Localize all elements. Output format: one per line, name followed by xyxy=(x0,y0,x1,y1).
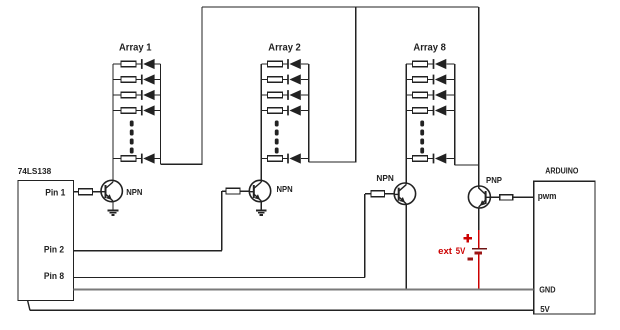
LED diode Array 1 row 4 xyxy=(142,105,155,115)
LED diode Array 1 row 5 xyxy=(142,153,155,163)
LED diode Array 8 row 4 xyxy=(434,105,447,115)
wire Array 1 row 2 segments xyxy=(113,79,121,81)
wire Array 2 row 2 segments xyxy=(261,79,267,81)
resistor Array 1 row 4 xyxy=(121,108,136,114)
ellipsis dots Array 1 (more LEDs implied) xyxy=(130,121,134,154)
svg-text:Array 8: Array 8 xyxy=(413,42,446,53)
wire Q4 base to pwm resistor xyxy=(490,196,499,198)
resistor Array 8 row 1 xyxy=(413,61,428,67)
LED diode Array 2 row 5 xyxy=(288,153,301,163)
svg-text:Pin 8: Pin 8 xyxy=(44,271,64,281)
wire Array 2 right bus to riser xyxy=(309,161,357,163)
resistor Array 1 row 2 xyxy=(121,77,136,83)
LED diode Array 8 row 3 xyxy=(434,90,447,100)
wire Array 2 row 5 segments xyxy=(261,158,267,160)
wire Array 1 row 1 segments xyxy=(113,63,121,65)
battery negative lead to GND rail xyxy=(478,254,480,290)
resistor Array 2 row 5 xyxy=(268,156,283,162)
resistor Array 2 row 4 xyxy=(268,108,283,114)
svg-text:NPN: NPN xyxy=(126,187,142,197)
LED diode Array 2 row 2 xyxy=(288,74,301,84)
wire Array 1 row 4 segments xyxy=(113,110,121,112)
LED diode Array 8 row 2 xyxy=(434,74,447,84)
LED diode Array 1 row 2 xyxy=(142,74,155,84)
resistor base R (Q1) xyxy=(79,189,93,195)
wire Array 8 row 5 segments xyxy=(406,158,412,160)
resistor Array 8 row 5 xyxy=(413,156,428,162)
LED diode Array 1 row 1 xyxy=(142,59,155,69)
svg-text:NPN: NPN xyxy=(376,173,393,183)
wire Array 1 row 3 segments xyxy=(113,94,121,96)
ground symbol (Q2 emitter) xyxy=(256,201,267,215)
resistor Array 2 row 1 xyxy=(268,61,283,67)
LED diode Array 8 row 1 xyxy=(434,59,447,69)
svg-text:ext: ext xyxy=(438,246,452,256)
resistor Array 1 row 5 xyxy=(121,156,136,162)
svg-text:GND: GND xyxy=(539,286,556,295)
wire Pin 8 riser xyxy=(364,194,366,278)
IC U1 74LS138 decoder box xyxy=(18,181,74,301)
wire Pin 8 horizontal xyxy=(74,277,365,279)
resistor base R (Q4 pwm) xyxy=(500,195,513,200)
wire Q3 emitter to GND rail xyxy=(405,204,407,290)
LED diode Array 2 row 1 xyxy=(288,59,301,69)
wire Array 2 row 4 segments xyxy=(261,110,267,112)
wire riser to base resistor (Q3) xyxy=(365,193,371,195)
ellipsis dots Array 2 (more LEDs implied) xyxy=(275,121,279,154)
svg-text:Pin 2: Pin 2 xyxy=(44,245,64,255)
wire Array 1 right bus to riser xyxy=(161,163,203,165)
label + (battery positive) xyxy=(464,234,472,242)
svg-text:Array 1: Array 1 xyxy=(119,42,152,53)
MCU ARDUINO box xyxy=(534,181,595,314)
wire Array 8 left bus (anode-side resistor bus / collector riser) xyxy=(405,64,407,185)
battery plate negative (short thick) xyxy=(475,251,483,254)
transistor Q3 NPN xyxy=(394,183,415,204)
wire Q4 emitter down to battery xyxy=(478,208,480,230)
wire Array 8 row 3 segments xyxy=(406,94,412,96)
wire Array 8 row 2 segments xyxy=(406,79,412,81)
wire riser from Array 2 right bus to top bus xyxy=(355,7,357,162)
wire Array 8 right bus xyxy=(454,64,456,165)
resistor Array 1 row 3 xyxy=(121,92,136,98)
label - (battery negative) xyxy=(467,258,473,261)
wire riser from Array 1 right bus to top bus xyxy=(201,7,203,164)
LED diode Array 2 row 3 xyxy=(288,90,301,100)
resistor Array 1 row 1 xyxy=(121,61,136,67)
wire Pin 2 riser xyxy=(221,191,223,251)
wire pwm resistor to ARDUINO pwm pin xyxy=(513,196,534,198)
svg-text:NPN: NPN xyxy=(277,184,293,194)
wire Array 8 row 1 segments xyxy=(406,63,412,65)
wire Pin 1 to base resistor xyxy=(74,191,79,193)
wire top bus (common anode rail to PNP collector) xyxy=(202,6,479,8)
LED diode Array 1 row 3 xyxy=(142,90,155,100)
wire Array 8 right bus to PNP collector line xyxy=(455,164,479,166)
wire Q1 emitter to ground xyxy=(112,200,114,202)
LED diode Array 8 row 5 xyxy=(434,153,447,163)
svg-text:74LS138: 74LS138 xyxy=(18,166,52,176)
svg-text:5V: 5V xyxy=(540,305,550,314)
wire Array 2 right bus xyxy=(308,64,310,162)
resistor base R (Q3) xyxy=(371,191,385,197)
svg-text:pwm: pwm xyxy=(538,191,557,202)
transistor Q4 PNP xyxy=(468,186,490,208)
wire 5V rail (to ARDUINO 5V) xyxy=(30,309,534,311)
wire base resistor to Q2 base xyxy=(240,190,249,192)
svg-text:Pin 1: Pin 1 xyxy=(45,187,65,197)
wire Array 8 row 4 segments xyxy=(406,110,412,112)
ellipsis dots Array 8 (more LEDs implied) xyxy=(420,121,424,154)
wire Array 1 row 5 segments xyxy=(113,158,121,160)
wire top bus down to PNP collector xyxy=(478,7,480,189)
svg-text:5V: 5V xyxy=(456,246,466,256)
wire GND rail (74LS138 to ARDUINO GND) xyxy=(74,289,534,291)
resistor Array 2 row 2 xyxy=(268,77,283,83)
battery plate positive (long) xyxy=(472,248,487,250)
transistor Q1 NPN xyxy=(101,180,122,201)
wire base resistor to Q1 base xyxy=(93,191,102,193)
ground symbol (Q1 emitter) xyxy=(108,201,119,215)
resistor Array 2 row 3 xyxy=(268,92,283,98)
wire 5V rail drop from 74LS138 xyxy=(28,301,30,311)
svg-text:PNP: PNP xyxy=(486,175,502,185)
LED diode Array 2 row 4 xyxy=(288,105,301,115)
resistor base R (Q2) xyxy=(226,188,240,194)
wire Array 1 left bus (anode-side resistor bus / collector riser) xyxy=(112,64,114,182)
battery ext 5V positive lead xyxy=(478,230,480,249)
wire Array 1 right bus xyxy=(160,64,162,164)
wire base resistor to Q3 base xyxy=(385,193,395,195)
wire riser to base resistor (Q2) xyxy=(222,190,226,192)
wire Array 2 row 3 segments xyxy=(261,94,267,96)
transistor Q2 NPN xyxy=(249,180,270,201)
svg-text:ARDUINO: ARDUINO xyxy=(545,167,579,176)
resistor Array 8 row 4 xyxy=(413,108,428,114)
wire Array 2 row 1 segments xyxy=(261,63,267,65)
wire Array 2 left bus (anode-side resistor bus / collector riser) xyxy=(260,64,262,182)
svg-text:Array 2: Array 2 xyxy=(268,42,301,53)
wire Pin 2 horizontal xyxy=(74,250,222,252)
resistor Array 8 row 3 xyxy=(413,92,428,98)
resistor Array 8 row 2 xyxy=(413,77,428,83)
